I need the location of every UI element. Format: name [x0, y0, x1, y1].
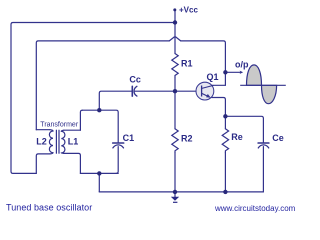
svg-text:R1: R1 [181, 58, 193, 68]
svg-text:R2: R2 [181, 134, 193, 144]
wire tank top horizontal [82, 109, 99, 111]
wire Re bottom [224, 153, 226, 192]
wire hop over Vcc line [169, 37, 180, 41]
wire o/p line [225, 71, 240, 73]
terminal dot Vcc [173, 8, 176, 11]
svg-text:+Vcc: +Vcc [179, 5, 198, 14]
wire Re top [224, 116, 226, 129]
wire L1 top horizontal [64, 129, 81, 131]
junction dot tank top [97, 108, 101, 112]
svg-text:Re: Re [231, 132, 243, 142]
wire Cc to base junction and base [135, 90, 202, 92]
resistor R1 [172, 54, 178, 78]
wire feedback line y=40.9 right part down to collector node [181, 41, 226, 85]
wire R2 bottom to ground rail [174, 153, 176, 192]
wire Vcc vertical [174, 10, 176, 54]
svg-text:Cc: Cc [129, 75, 141, 85]
svg-text:L1: L1 [68, 137, 79, 147]
ground symbol triangle [171, 197, 179, 201]
wire base node down to R2 [174, 91, 176, 129]
junction dot Vcc rail [173, 20, 177, 24]
o/p arrowhead [240, 71, 244, 74]
wire bottom ground rail [99, 191, 263, 193]
capacitor Ce plates [258, 142, 269, 144]
wire collector horizontal [212, 84, 226, 86]
capacitor Cc plates [131, 86, 133, 96]
wire C1 branch [99, 110, 118, 173]
junction dot emitter node [223, 114, 227, 118]
junction dot base node [173, 89, 177, 93]
svg-text:Q1: Q1 [207, 72, 219, 82]
wire tank bottom horizontal [80, 172, 118, 174]
wire L2 top / transformer label underline left [36, 129, 50, 131]
transistor Q1 base bar [201, 86, 203, 97]
resistor R2 [172, 129, 178, 153]
transistor Q1 body [196, 82, 214, 100]
transistor Q1 emitter lead [202, 93, 210, 97]
svg-text:www.circuitstoday.com: www.circuitstoday.com [214, 204, 296, 213]
svg-text:o/p: o/p [235, 60, 249, 70]
junction dot Re ground [223, 190, 227, 194]
svg-text:Transformer: Transformer [40, 122, 79, 129]
wire ground stub [174, 192, 176, 197]
ground symbol dash [173, 201, 177, 203]
inductor L1 [61, 130, 65, 153]
inductor L2 [49, 130, 53, 154]
wire tank bottom drop [98, 173, 100, 192]
svg-text:C1: C1 [123, 133, 135, 143]
wire emitter to Re/Ce node [212, 98, 226, 117]
wire L1 bottom to tank bottom [64, 153, 81, 173]
capacitor C1 plates [113, 142, 124, 144]
junction dot collector/o-p [223, 70, 227, 74]
wire feedback vertical and line y=40.9 left part [36, 41, 169, 130]
junction dot R2 ground [173, 190, 177, 194]
wire L2 bottom loop [36, 154, 50, 174]
svg-text:Ce: Ce [272, 133, 284, 143]
wire L1 top right edge corner [80, 110, 82, 130]
junction dot tank bottom [97, 171, 101, 175]
sine wave axis [240, 84, 286, 86]
resistor Re [222, 129, 228, 153]
wire top rail from Vcc junction to left rail, down and to L2 loop [11, 23, 175, 174]
svg-text:L2: L2 [36, 137, 47, 147]
wire Ce branch [225, 116, 263, 192]
svg-text:Tuned base oscillator: Tuned base oscillator [6, 203, 92, 213]
transistor Q1 emitter arrow [206, 94, 211, 98]
wire R1 bottom to base node [174, 78, 176, 92]
wire tank top node up to Cc line [99, 91, 132, 110]
sine wave humps [247, 65, 277, 104]
transistor Q1 collector lead [202, 85, 214, 88]
transformer core [56, 130, 59, 153]
